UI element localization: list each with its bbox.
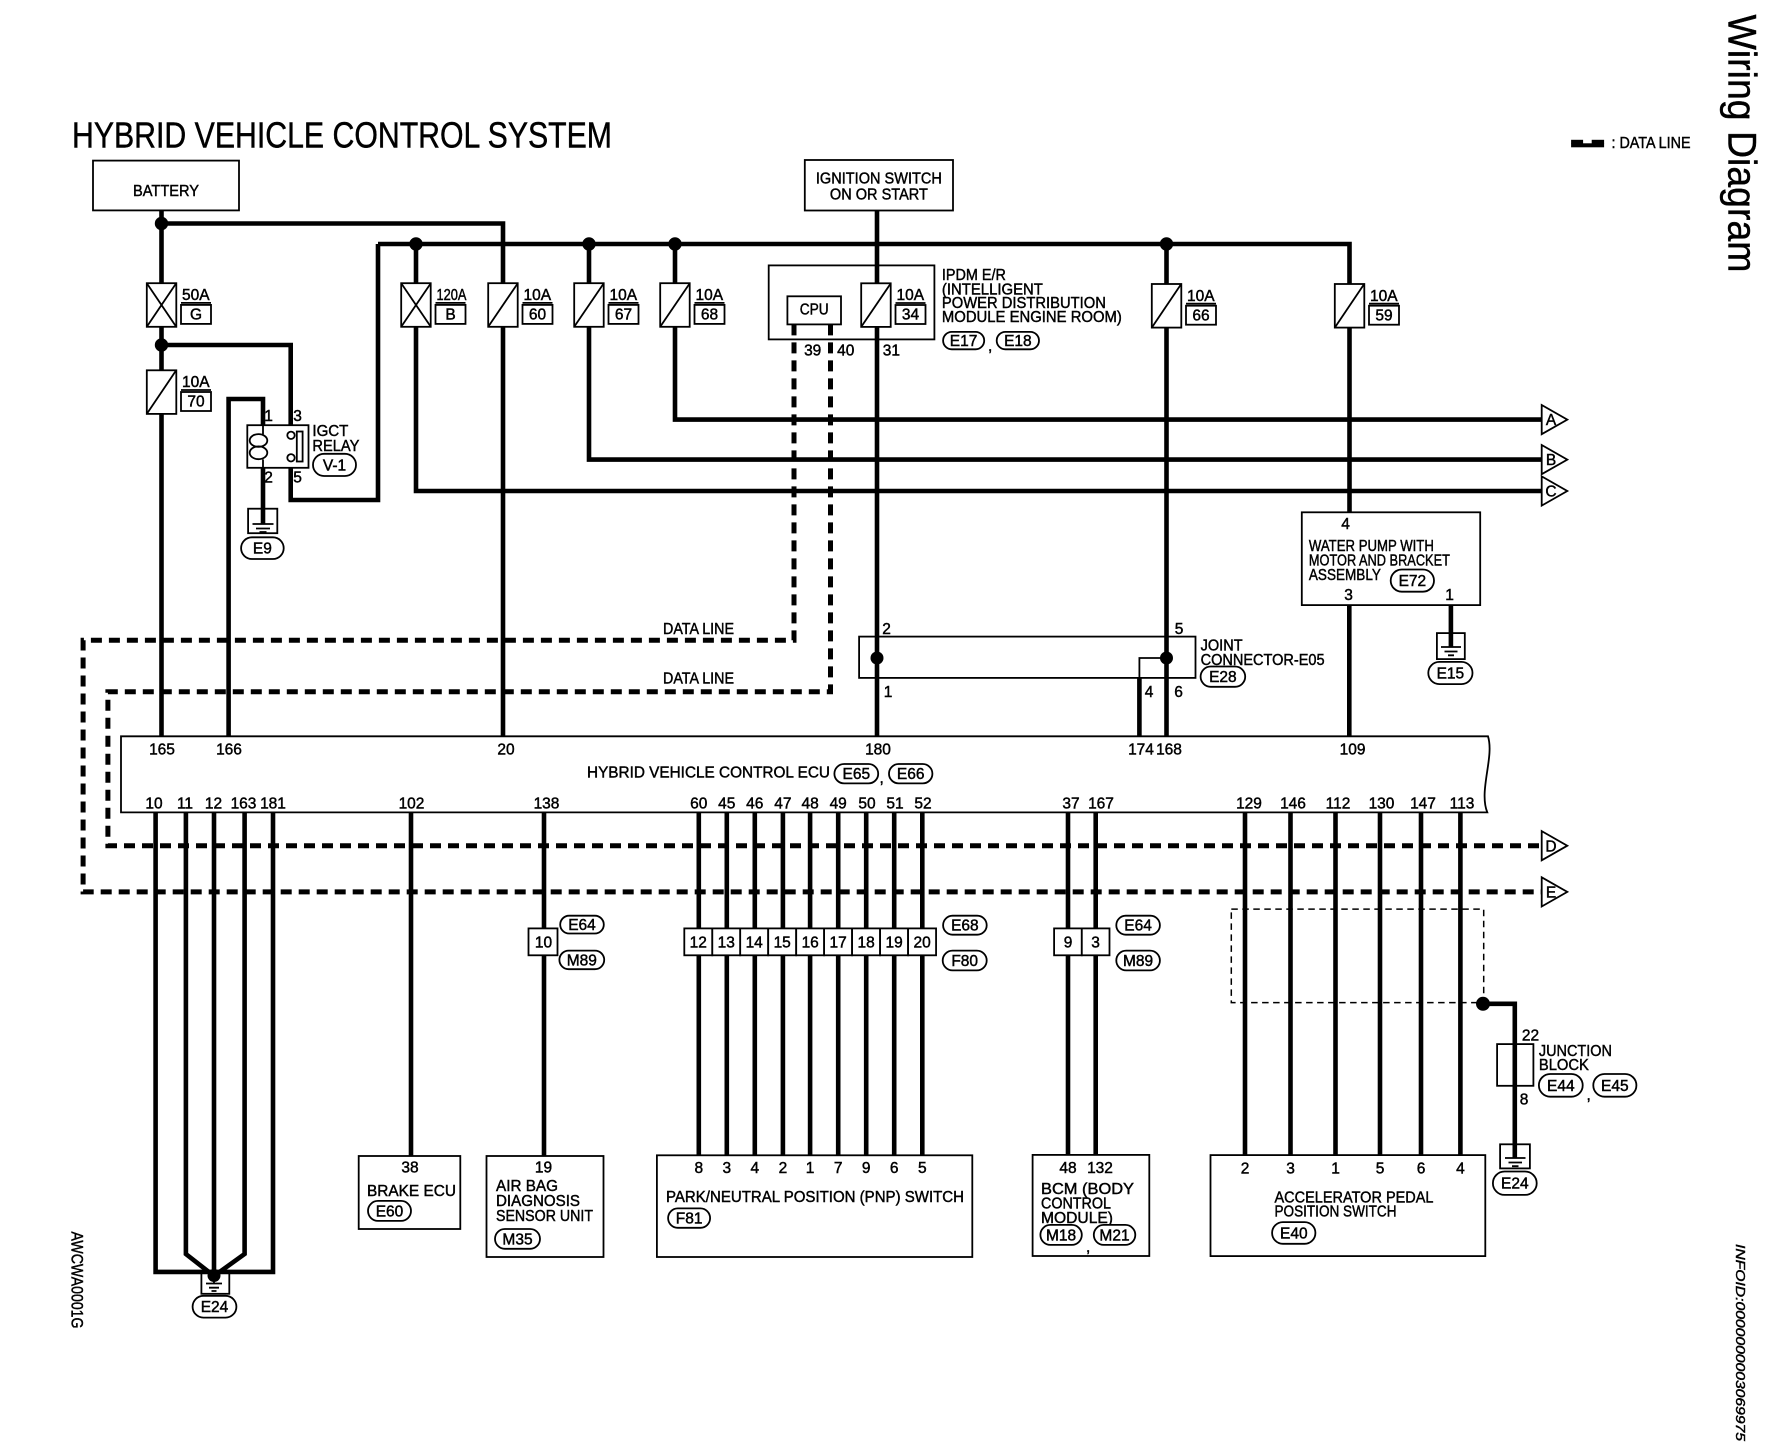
fuse 10A 60: [488, 283, 552, 327]
wire ECU pin 181 to ground E24: [214, 812, 273, 1272]
wire bus2 stub fuse 67: [587, 244, 592, 283]
svg-text:17: 17: [829, 935, 846, 952]
svg-text:8: 8: [694, 1160, 703, 1177]
connector label E18: [997, 332, 1039, 350]
fusible link 120A B: [401, 283, 467, 327]
hybrid vehicle control ECU E65/E66: [121, 736, 1490, 812]
wire water pump pin 1 to ground E15: [1449, 605, 1454, 647]
wire ECU pin 113 to accelerator pedal switch pin 4: [1458, 812, 1463, 1155]
connector label V-1: [313, 454, 356, 476]
wire fuse 66 to ECU pin 168: [1164, 327, 1169, 736]
svg-text:E65: E65: [843, 766, 871, 783]
svg-text:3: 3: [1344, 587, 1353, 604]
svg-text:39: 39: [804, 343, 821, 360]
svg-text:MODULE ENGINE ROOM): MODULE ENGINE ROOM): [942, 309, 1122, 326]
wire ECU pin 12 to ground E24: [212, 812, 217, 1276]
svg-text:5: 5: [293, 470, 302, 487]
wire water pump pin 3 to ECU pin 109: [1347, 605, 1352, 736]
wire ECU pin 147 to accelerator pedal switch pin 6: [1419, 812, 1424, 1155]
svg-text:DATA LINE: DATA LINE: [663, 621, 734, 638]
svg-text:E64: E64: [568, 917, 596, 934]
svg-text:D: D: [1545, 838, 1556, 855]
svg-text:4: 4: [1341, 516, 1350, 533]
svg-text:ON OR START: ON OR START: [830, 187, 928, 204]
svg-text:3: 3: [1286, 1161, 1295, 1178]
svg-text:166: 166: [216, 742, 242, 759]
connector label M89: [559, 951, 604, 970]
wire to relay pin 3: [162, 345, 291, 425]
fuse 10A 68: [660, 283, 724, 327]
svg-text:109: 109: [1340, 742, 1366, 759]
svg-text:BLOCK: BLOCK: [1539, 1057, 1589, 1074]
svg-text:E68: E68: [951, 918, 979, 935]
svg-text:10: 10: [535, 935, 553, 952]
node joint connector pin2: [871, 652, 884, 665]
svg-text:120A: 120A: [437, 287, 468, 304]
connector label M35: [495, 1229, 540, 1249]
connector label F81: [668, 1208, 710, 1227]
svg-text:G: G: [190, 307, 202, 324]
fuse 10A 66: [1152, 284, 1216, 328]
svg-text:HYBRID VEHICLE CONTROL SYSTEM: HYBRID VEHICLE CONTROL SYSTEM: [72, 115, 612, 156]
svg-text:M89: M89: [567, 952, 597, 969]
svg-text:8: 8: [1520, 1092, 1529, 1109]
wire fuse 70 to ECU pin 165: [159, 414, 164, 736]
wire ECU pin 129 to accelerator pedal switch pin 2: [1243, 812, 1248, 1155]
svg-text:6: 6: [1417, 1161, 1426, 1178]
connector pin boxes 9 3 (E64/M89): [1054, 928, 1109, 955]
connector label E45: [1593, 1074, 1636, 1097]
connector label E65: [834, 764, 878, 783]
svg-text:CPU: CPU: [800, 302, 829, 319]
svg-text:E60: E60: [376, 1203, 404, 1220]
wire data line CPU pin 40 to arrow D: [108, 324, 1542, 845]
svg-text:163: 163: [231, 796, 257, 813]
svg-text:60: 60: [690, 796, 708, 813]
wire ECU pin 37 to BCM pin 48: [1066, 812, 1071, 1155]
wire ECU pin 167 to BCM pin 132: [1093, 812, 1098, 1155]
svg-text:1: 1: [1331, 1161, 1340, 1178]
svg-text:167: 167: [1088, 796, 1114, 813]
svg-text:E18: E18: [1004, 333, 1032, 350]
connector label E24 right: [1493, 1172, 1537, 1195]
svg-text:5: 5: [1376, 1161, 1385, 1178]
svg-text:E: E: [1546, 885, 1556, 902]
svg-text:40: 40: [837, 343, 855, 360]
svg-text:48: 48: [801, 796, 818, 813]
BCM body control module M18/M21: [1033, 1155, 1150, 1256]
ground E15: [1437, 633, 1465, 659]
svg-text:,: ,: [988, 338, 992, 355]
connector label M18: [1040, 1225, 1081, 1245]
wire data line CPU pin 39 to arrow E: [83, 324, 1542, 892]
svg-text:15: 15: [774, 935, 791, 952]
joint connector E05: [859, 637, 1325, 678]
off-page arrow C: [1542, 476, 1568, 505]
node bus2 at fuse 66: [1160, 237, 1173, 250]
fuse 10A 59: [1335, 284, 1399, 328]
wire battery to fuse G: [159, 210, 164, 283]
wire bus2 stub fuse 68: [673, 244, 678, 283]
wire ignition switch to fuse 34: [875, 211, 880, 284]
IPDM pin numbers 39 40 31: [804, 343, 900, 360]
ground E24 right: [1500, 1144, 1530, 1168]
brake ECU E60: [359, 1156, 461, 1229]
wire joint connector pin4 branch: [1139, 658, 1166, 678]
water pump pin numbers 4 3 1: [1341, 516, 1454, 604]
svg-text:1: 1: [1445, 587, 1454, 604]
connector label E66: [889, 764, 932, 783]
svg-text:10A: 10A: [182, 374, 210, 391]
svg-text:10A: 10A: [610, 287, 638, 304]
wire fuse B to arrow C: [416, 327, 1542, 491]
ignition switch: [805, 160, 953, 211]
svg-text:70: 70: [187, 394, 205, 411]
svg-text:3: 3: [1091, 935, 1100, 952]
connector pin boxes 12-20 (E68/F80): [684, 928, 936, 955]
off-page arrow E: [1542, 877, 1568, 906]
node fuse G lower junction: [155, 338, 168, 351]
fuse 10A 67: [574, 283, 638, 327]
connector label M89 right: [1116, 951, 1160, 971]
svg-text:6: 6: [1174, 684, 1183, 701]
off-page arrow D: [1542, 831, 1568, 860]
svg-text:138: 138: [534, 796, 560, 813]
svg-text:1: 1: [806, 1160, 815, 1177]
svg-text:9: 9: [1064, 935, 1073, 952]
svg-text:E17: E17: [950, 333, 978, 350]
wire ECU pin 47 to PNP pin 2: [781, 812, 786, 1155]
wire ECU pin 163 to ground E24: [214, 812, 245, 1276]
svg-text:5: 5: [1175, 621, 1184, 638]
svg-text:10A: 10A: [897, 287, 925, 304]
svg-text:HYBRID VEHICLE CONTROL ECU: HYBRID VEHICLE CONTROL ECU: [587, 765, 830, 782]
water pump with motor and bracket assembly: [1302, 512, 1480, 605]
wire fuse 59 to water pump pin 4: [1347, 327, 1352, 512]
off-page arrow B: [1542, 445, 1568, 474]
svg-text:59: 59: [1375, 307, 1392, 324]
svg-text:16: 16: [802, 935, 819, 952]
wire relay pin 5 to bus2: [291, 244, 378, 500]
svg-text:48: 48: [1059, 1160, 1076, 1177]
wire ECU pin 49 to PNP pin 7: [836, 812, 841, 1155]
svg-text:4: 4: [750, 1160, 759, 1177]
svg-text:E72: E72: [1399, 573, 1427, 590]
wire ECU pin 11 to ground E24: [186, 812, 214, 1276]
svg-text:2: 2: [264, 470, 273, 487]
svg-text:E9: E9: [253, 541, 272, 558]
ground E9: [248, 509, 277, 534]
svg-text:E45: E45: [1601, 1078, 1629, 1095]
svg-text:E44: E44: [1547, 1078, 1575, 1095]
node bus2 at fuse B: [409, 237, 422, 250]
svg-text:2: 2: [779, 1160, 788, 1177]
svg-text:B: B: [445, 307, 455, 324]
svg-text:E64: E64: [1124, 918, 1152, 935]
svg-text:6: 6: [890, 1160, 899, 1177]
svg-text:E15: E15: [1437, 666, 1465, 683]
svg-text:INFOID:0000000003069975: INFOID:0000000003069975: [1733, 1244, 1748, 1442]
connector label E40: [1272, 1222, 1315, 1244]
joint connector pin numbers 2 5 1 4 6: [882, 621, 1183, 701]
connector label E64: [560, 916, 604, 934]
wire fuse 68 to arrow A: [675, 327, 1542, 420]
node shield ground junction: [1476, 997, 1490, 1011]
wire relay pin 1 to ECU pin 166: [229, 399, 263, 736]
connector label E72: [1391, 570, 1434, 592]
svg-text:20: 20: [913, 935, 931, 952]
svg-text:E66: E66: [897, 766, 925, 783]
off-page arrow A: [1542, 405, 1568, 434]
wire ECU pin 52 to PNP pin 5: [920, 812, 925, 1155]
park/neutral position switch F81: [657, 1155, 972, 1257]
svg-text:2: 2: [882, 621, 891, 638]
wire joint connector pin4 to ECU pin 174: [1137, 678, 1142, 736]
svg-text:7: 7: [834, 1160, 843, 1177]
wire ECU pin 102 to brake ECU pin 38: [409, 812, 414, 1156]
svg-text:112: 112: [1326, 796, 1351, 813]
wire ECU pin 45 to PNP pin 3: [724, 812, 729, 1155]
svg-text:147: 147: [1410, 796, 1436, 813]
wire ECU pin 130 to accelerator pedal switch pin 5: [1378, 812, 1383, 1155]
wire ECU pin 112 to accelerator pedal switch pin 1: [1333, 812, 1338, 1155]
svg-text:3: 3: [722, 1160, 731, 1177]
svg-text:M89: M89: [1123, 953, 1153, 970]
svg-text:45: 45: [718, 796, 735, 813]
svg-text:37: 37: [1062, 796, 1079, 813]
svg-text:18: 18: [857, 935, 874, 952]
svg-text:49: 49: [830, 796, 847, 813]
wire fuse G to fuse 70: [159, 327, 164, 371]
ECU top pin numbers: [149, 742, 1365, 759]
svg-text:10A: 10A: [1370, 288, 1398, 305]
relay pin numbers 1 3 2 5: [264, 408, 302, 487]
svg-text:1: 1: [884, 684, 893, 701]
svg-text:M18: M18: [1046, 1227, 1076, 1244]
svg-text:11: 11: [177, 796, 193, 813]
wire fuse 60 to ECU pin 20: [501, 327, 506, 737]
svg-text:3: 3: [293, 408, 302, 425]
svg-text:129: 129: [1236, 796, 1262, 813]
svg-text:M35: M35: [502, 1231, 532, 1248]
connector pin box 10 (E64/M89): [529, 928, 558, 955]
wire ECU pin 46 to PNP pin 4: [752, 812, 757, 1155]
svg-text:12: 12: [205, 796, 222, 813]
svg-text:E28: E28: [1209, 669, 1237, 686]
svg-text:66: 66: [1192, 307, 1209, 324]
shield box around accelerator pedal wires: [1231, 909, 1483, 1003]
svg-text:13: 13: [718, 935, 735, 952]
svg-text:165: 165: [149, 742, 175, 759]
wire bus2 stub fuse B: [414, 244, 419, 283]
CPU U1: [787, 296, 841, 324]
svg-text:38: 38: [401, 1160, 418, 1177]
svg-text:47: 47: [774, 796, 791, 813]
wire ECU pin 146 to accelerator pedal switch pin 3: [1288, 812, 1293, 1155]
svg-text:5: 5: [918, 1160, 927, 1177]
svg-text:2: 2: [1241, 1161, 1250, 1178]
node battery bus junction: [155, 217, 168, 230]
svg-text:SENSOR UNIT: SENSOR UNIT: [496, 1208, 593, 1225]
connector label E28: [1201, 667, 1246, 687]
IPDM E/R label text: [942, 267, 1122, 326]
wire relay pin 2 to ground E9: [261, 468, 266, 525]
svg-text:31: 31: [883, 343, 900, 360]
svg-text:180: 180: [865, 742, 891, 759]
svg-text:19: 19: [535, 1160, 552, 1177]
air bag diagnosis sensor unit M35: [487, 1156, 604, 1257]
svg-text:: DATA LINE: : DATA LINE: [1612, 135, 1691, 152]
node joint connector pin5: [1160, 652, 1173, 665]
connector label E60: [368, 1201, 411, 1221]
wire fuse 67 to arrow B: [589, 327, 1542, 460]
connector label M21: [1094, 1225, 1136, 1245]
wire bus2 stub fuse 66: [1164, 244, 1169, 284]
fusible link 50A G: [147, 283, 211, 327]
wire fuse 34 pin 31 to ECU pin 180: [875, 327, 880, 736]
svg-text:E40: E40: [1280, 1225, 1308, 1242]
svg-text:181: 181: [260, 796, 286, 813]
accelerator pedal position switch E40: [1211, 1155, 1486, 1256]
svg-text:52: 52: [914, 796, 931, 813]
legend data line: [1571, 135, 1690, 152]
connector label F80: [943, 951, 987, 971]
svg-text:E24: E24: [1501, 1176, 1529, 1193]
svg-text:10A: 10A: [696, 287, 724, 304]
connector label E15: [1428, 662, 1472, 684]
svg-text:C: C: [1545, 484, 1556, 501]
svg-text:,: ,: [1086, 1239, 1090, 1256]
svg-text:12: 12: [690, 935, 707, 952]
svg-text:DATA LINE: DATA LINE: [663, 671, 734, 688]
svg-text:168: 168: [1156, 742, 1182, 759]
svg-text:20: 20: [497, 742, 515, 759]
wire bus2 to fuse 59: [378, 244, 1350, 284]
svg-text:174: 174: [1128, 742, 1154, 759]
svg-text:10A: 10A: [1187, 288, 1215, 305]
connector label E9: [241, 537, 284, 559]
svg-text:113: 113: [1450, 796, 1475, 813]
svg-text:,: ,: [1587, 1087, 1591, 1104]
svg-text:,: ,: [880, 770, 884, 787]
fuse 10A 34: [861, 283, 925, 327]
svg-text:19: 19: [885, 935, 902, 952]
svg-text:102: 102: [399, 796, 425, 813]
battery: [93, 161, 239, 211]
ground E24 left: [201, 1269, 229, 1294]
svg-text:146: 146: [1280, 796, 1306, 813]
svg-text:F80: F80: [951, 953, 978, 970]
node bus2 at fuse 67: [582, 237, 595, 250]
connector label E24 left: [193, 1296, 237, 1318]
svg-text:132: 132: [1087, 1160, 1113, 1177]
svg-text:B: B: [1546, 452, 1556, 469]
svg-text:BRAKE ECU: BRAKE ECU: [367, 1183, 456, 1200]
connector label E64 right: [1116, 916, 1160, 935]
junction block E44/E45: [1497, 1028, 1612, 1109]
svg-text:RELAY: RELAY: [312, 438, 359, 455]
connector label E44: [1539, 1074, 1583, 1097]
node bus2 at fuse 68: [668, 237, 681, 250]
wire ECU pin 51 to PNP pin 6: [892, 812, 897, 1155]
wire ECU pin 60 to PNP pin 8: [696, 812, 701, 1155]
svg-text:130: 130: [1369, 796, 1395, 813]
svg-text:4: 4: [1456, 1161, 1465, 1178]
svg-text:34: 34: [902, 307, 920, 324]
IPDM E/R box: [769, 265, 935, 339]
connector label E17: [943, 332, 984, 350]
ECU bottom pin numbers: [145, 796, 1474, 813]
wire ECU pin 48 to PNP pin 1: [808, 812, 813, 1155]
svg-text:67: 67: [615, 307, 632, 324]
svg-text:10A: 10A: [524, 287, 552, 304]
wire ECU pin 50 to PNP pin 9: [864, 812, 869, 1155]
svg-text:IGNITION SWITCH: IGNITION SWITCH: [816, 171, 942, 188]
svg-text:V-1: V-1: [323, 457, 346, 474]
svg-text:1: 1: [264, 408, 273, 425]
svg-text:60: 60: [529, 307, 547, 324]
wire ECU pin 10 to ground E24: [156, 812, 214, 1272]
svg-text:M21: M21: [1099, 1227, 1129, 1244]
svg-text:PARK/NEUTRAL POSITION (PNP) SW: PARK/NEUTRAL POSITION (PNP) SWITCH: [666, 1189, 964, 1206]
relay IGCT V-1: [247, 423, 359, 468]
svg-text:9: 9: [862, 1160, 871, 1177]
svg-text:AWCWA0001G: AWCWA0001G: [68, 1232, 86, 1329]
svg-text:50A: 50A: [182, 287, 210, 304]
svg-text:10: 10: [145, 796, 163, 813]
svg-text:51: 51: [886, 796, 903, 813]
svg-text:50: 50: [858, 796, 876, 813]
svg-text:F81: F81: [676, 1211, 703, 1228]
svg-text:46: 46: [746, 796, 763, 813]
svg-text:ASSEMBLY: ASSEMBLY: [1309, 567, 1381, 584]
svg-text:Wiring Diagram: Wiring Diagram: [1720, 15, 1764, 273]
connector label E68: [943, 916, 987, 935]
svg-text:BATTERY: BATTERY: [133, 183, 199, 200]
svg-text:POSITION SWITCH: POSITION SWITCH: [1275, 1204, 1397, 1221]
wire ECU pin 138 to air bag unit pin 19: [542, 812, 547, 1156]
wire battery bus to fuse 60: [162, 224, 504, 284]
svg-text:4: 4: [1145, 684, 1154, 701]
wire shield to junction block and ground E24: [1483, 1004, 1515, 1158]
svg-text:68: 68: [701, 307, 718, 324]
fuse 10A 70: [147, 370, 211, 414]
svg-text:A: A: [1546, 412, 1557, 429]
svg-text:E24: E24: [201, 1299, 229, 1316]
svg-text:14: 14: [746, 935, 764, 952]
svg-text:22: 22: [1522, 1028, 1539, 1045]
